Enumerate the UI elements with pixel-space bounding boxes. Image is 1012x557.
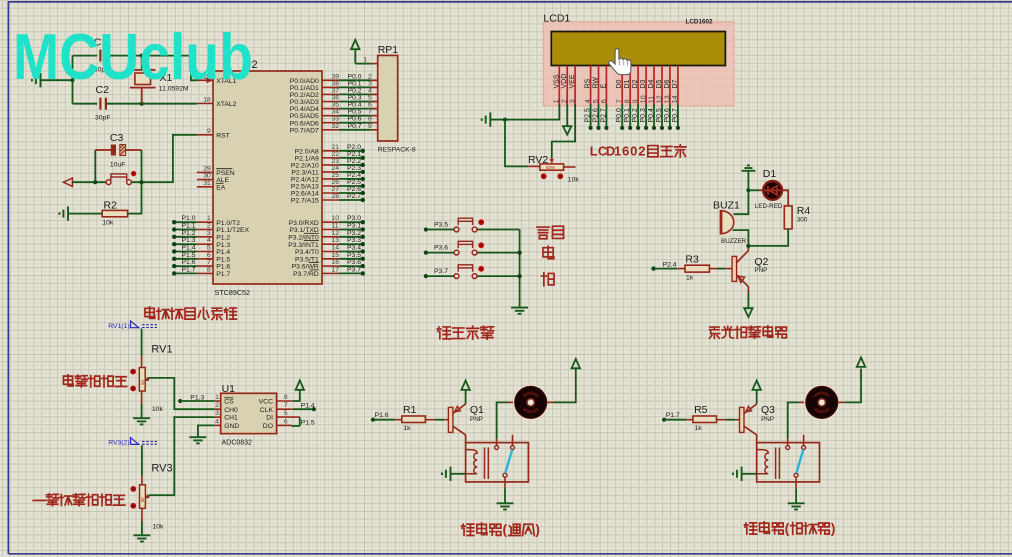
resistor pack RP1 RESPACK-8 xyxy=(363,44,416,153)
wire RV1 wiper to CH0 xyxy=(149,378,215,409)
label sheng guang bao jing dian lu xyxy=(710,327,720,338)
svg-text:P1.1: P1.1 xyxy=(182,223,196,230)
svg-text:PNP: PNP xyxy=(754,267,767,274)
svg-text:P1.5: P1.5 xyxy=(182,252,196,259)
svg-text:4: 4 xyxy=(585,99,592,103)
svg-text:300: 300 xyxy=(797,217,808,224)
wire ground down to D1 node xyxy=(747,171,749,191)
junction bus P3.7 xyxy=(518,274,522,278)
button common bus xyxy=(519,230,521,307)
svg-text:28: 28 xyxy=(332,193,340,200)
svg-text:0: 0 xyxy=(630,144,637,159)
svg-text:33: 33 xyxy=(332,116,340,123)
LED D1 LED-RED xyxy=(755,168,783,210)
svg-text:P2.6: P2.6 xyxy=(347,186,361,193)
svg-text:P0.0/AD0: P0.0/AD0 xyxy=(290,78,319,85)
P0 bus wires U2 to RP1 xyxy=(339,73,378,130)
svg-text:P3.0/RXD: P3.0/RXD xyxy=(289,220,319,227)
svg-text:3: 3 xyxy=(215,410,219,417)
svg-text:CLK: CLK xyxy=(260,407,274,414)
wire probe to RV3 xyxy=(141,445,143,476)
wire button right to RST xyxy=(132,135,197,182)
svg-text:34: 34 xyxy=(332,109,340,116)
svg-text:): ) xyxy=(535,522,540,537)
svg-text:22: 22 xyxy=(332,151,340,158)
svg-text:D0: D0 xyxy=(616,79,623,88)
svg-text:Q1: Q1 xyxy=(470,404,484,416)
svg-text:(: ( xyxy=(503,522,508,537)
svg-text:R2: R2 xyxy=(104,200,118,212)
svg-text:25: 25 xyxy=(332,172,340,179)
label jian xyxy=(542,273,555,286)
crystal X1 xyxy=(130,56,189,104)
net dot P1.6 xyxy=(371,418,375,422)
wire R1 to Q1 base xyxy=(425,419,435,421)
svg-text:23: 23 xyxy=(332,158,340,165)
svg-text:P1.0: P1.0 xyxy=(182,215,196,222)
svg-text:P1.1/T2EX: P1.1/T2EX xyxy=(216,227,249,234)
svg-text:P2.4: P2.4 xyxy=(663,261,677,268)
svg-text:P3.3/INT1: P3.3/INT1 xyxy=(288,242,319,249)
svg-text:9: 9 xyxy=(633,99,640,103)
wire relay common to ground xyxy=(504,488,506,502)
ground (RV1) xyxy=(133,418,150,424)
svg-text:13: 13 xyxy=(332,237,340,244)
svg-text:16: 16 xyxy=(332,259,340,266)
svg-text:P0.6/AD6: P0.6/AD6 xyxy=(290,120,319,127)
svg-text:MCUclub: MCUclub xyxy=(13,20,253,93)
svg-text:10k: 10k xyxy=(152,406,164,413)
net dot P2.4 xyxy=(651,266,655,270)
svg-text:10uF: 10uF xyxy=(110,161,126,168)
svg-text:5: 5 xyxy=(207,245,211,252)
svg-text:31: 31 xyxy=(203,180,211,187)
svg-text:24: 24 xyxy=(332,165,340,172)
wire motor to power xyxy=(838,401,845,403)
svg-text:P2.3/A11: P2.3/A11 xyxy=(291,170,319,177)
svg-text:P2.6: P2.6 xyxy=(593,108,600,123)
ground (top of alarm) xyxy=(741,165,755,170)
svg-text:50: 50 xyxy=(140,380,145,385)
svg-text:D1: D1 xyxy=(763,168,777,180)
svg-text:P0.3: P0.3 xyxy=(640,108,647,123)
node XTAL2 net junction xyxy=(140,102,144,106)
svg-text:2: 2 xyxy=(207,223,211,230)
wire VEE to RV2 wiper xyxy=(552,104,575,158)
svg-text:P2.1: P2.1 xyxy=(347,151,361,158)
svg-text:BUZ1: BUZ1 xyxy=(713,200,740,212)
pin arrow XTAL1 xyxy=(207,78,214,84)
svg-text:U1: U1 xyxy=(222,383,236,395)
svg-text:P1.6: P1.6 xyxy=(216,264,230,271)
wire coil ground xyxy=(742,473,757,475)
svg-text:P0.3/AD3: P0.3/AD3 xyxy=(290,99,319,106)
svg-text:EA: EA xyxy=(216,184,226,191)
svg-text:P0.1: P0.1 xyxy=(624,108,631,123)
svg-text:10k: 10k xyxy=(153,523,165,530)
svg-text:VSS: VSS xyxy=(553,74,560,88)
svg-text:DO: DO xyxy=(263,423,273,430)
push button P3.5 xyxy=(424,218,520,232)
svg-text:R5: R5 xyxy=(694,404,708,416)
P1 net wires left of U2 xyxy=(172,215,197,275)
svg-text:P0.4: P0.4 xyxy=(348,102,362,109)
svg-text:RV3(2): RV3(2) xyxy=(108,440,129,447)
svg-text:4: 4 xyxy=(215,418,219,425)
svg-text:P2.7/A15: P2.7/A15 xyxy=(291,198,319,205)
svg-text:R1: R1 xyxy=(403,404,417,416)
ground (relay coil) xyxy=(442,467,451,481)
svg-text:18: 18 xyxy=(203,97,211,104)
svg-text:PNP: PNP xyxy=(761,416,774,423)
svg-text:CH0: CH0 xyxy=(224,407,238,414)
svg-text:RST: RST xyxy=(216,132,230,139)
svg-text:1: 1 xyxy=(614,144,621,159)
ground (buttons) xyxy=(511,308,528,314)
resistor R3 (1k) xyxy=(685,254,709,282)
U2 left pins xyxy=(197,73,250,278)
svg-text:P1.7: P1.7 xyxy=(216,271,230,278)
svg-text:2: 2 xyxy=(215,402,219,409)
svg-text:GND: GND xyxy=(224,423,239,430)
svg-text:P1.4: P1.4 xyxy=(182,245,196,252)
wire P1.3 to CS xyxy=(180,400,214,402)
svg-text:STC89C52: STC89C52 xyxy=(215,288,251,297)
svg-text:XTAL2: XTAL2 xyxy=(216,101,236,108)
svg-text:8: 8 xyxy=(368,116,372,123)
svg-text:2: 2 xyxy=(638,144,645,159)
svg-text:1: 1 xyxy=(215,394,219,401)
terminal arrow down (emitter) xyxy=(744,308,752,317)
svg-text:P0.1/AD1: P0.1/AD1 xyxy=(290,85,319,92)
motor xyxy=(514,385,548,419)
svg-text:P3.6: P3.6 xyxy=(347,259,361,266)
svg-text:PSEN: PSEN xyxy=(216,170,235,177)
svg-text:P2.0/A8: P2.0/A8 xyxy=(295,148,319,155)
power terminal (motor) xyxy=(857,358,865,367)
reset button xyxy=(106,171,136,185)
svg-text:6: 6 xyxy=(207,252,211,259)
wire buzzer top pin xyxy=(733,190,748,214)
svg-text:12: 12 xyxy=(656,95,663,103)
svg-text:PNP: PNP xyxy=(470,416,483,423)
resistor R5 (1k) xyxy=(693,404,717,432)
capacitor C1 xyxy=(73,37,142,74)
svg-text:P3.7/RD: P3.7/RD xyxy=(293,271,319,278)
wire XTAL2 net to U2 xyxy=(142,103,197,105)
terminal arrow (reset left) xyxy=(64,178,73,186)
svg-text:RV1: RV1 xyxy=(151,344,172,356)
wire C3 left down to button xyxy=(94,150,96,182)
svg-text:27: 27 xyxy=(332,186,340,193)
svg-text:11: 11 xyxy=(332,223,339,230)
transistor Q2 PNP xyxy=(732,248,768,287)
svg-text:VCC: VCC xyxy=(259,399,273,406)
svg-text:D1: D1 xyxy=(624,79,631,88)
wire button junction down to R2 xyxy=(128,182,142,213)
svg-text:P3.5: P3.5 xyxy=(434,221,448,228)
svg-text:2: 2 xyxy=(368,73,372,80)
svg-text:P1.5: P1.5 xyxy=(301,420,315,427)
svg-text:4: 4 xyxy=(207,237,211,244)
wire ground junction to RV2 left xyxy=(505,120,528,167)
svg-text:P3.7: P3.7 xyxy=(434,268,448,275)
svg-text:5: 5 xyxy=(593,99,600,103)
svg-text:10k: 10k xyxy=(102,220,114,227)
svg-text:6: 6 xyxy=(368,102,372,109)
wire R3 to Q2 base xyxy=(709,268,717,270)
svg-text:11: 11 xyxy=(648,96,655,103)
svg-text:P2.4/A12: P2.4/A12 xyxy=(291,177,319,184)
svg-text:RW: RW xyxy=(593,77,600,89)
wire left vertical C1-C2 xyxy=(72,56,74,104)
mouse cursor xyxy=(609,49,631,75)
svg-text:8: 8 xyxy=(207,266,211,273)
wire node to D1 xyxy=(748,189,759,191)
ground (relay common) xyxy=(788,503,805,509)
label she zhi xyxy=(537,227,549,239)
svg-text:(: ( xyxy=(785,521,790,536)
relay (at Q1) xyxy=(466,435,529,489)
power terminal (RP1) xyxy=(351,40,359,49)
svg-text:P3.5: P3.5 xyxy=(347,252,361,259)
potentiometer RV2 (10k) xyxy=(528,154,579,183)
svg-text:10: 10 xyxy=(641,95,648,103)
svg-text:7: 7 xyxy=(368,109,372,116)
svg-text:CH1: CH1 xyxy=(224,415,238,422)
wire ground to R2 xyxy=(68,213,102,215)
svg-text:P0.7/AD7: P0.7/AD7 xyxy=(290,127,319,134)
svg-text:P2.7: P2.7 xyxy=(347,193,361,200)
svg-text:P2.5/A13: P2.5/A13 xyxy=(291,184,319,191)
svg-text:P0.0: P0.0 xyxy=(348,73,362,80)
power terminal (Q3) xyxy=(756,390,758,404)
push button P3.6 xyxy=(424,241,520,255)
junction button right xyxy=(140,180,144,184)
wire D1 to R4 xyxy=(782,190,788,206)
svg-text:P0.5/AD5: P0.5/AD5 xyxy=(290,113,319,120)
svg-text:P1.4: P1.4 xyxy=(216,249,230,256)
svg-text:1: 1 xyxy=(554,99,561,103)
wire RV3 bottom to ground xyxy=(141,508,143,521)
push button P3.7 xyxy=(424,265,520,279)
MCU U2 STC89C52 xyxy=(213,71,322,284)
power terminal (U1 VCC) xyxy=(296,380,304,389)
wire relay NO contact to motor xyxy=(497,402,508,438)
svg-text:P3.4: P3.4 xyxy=(347,245,361,252)
svg-text:P1.7: P1.7 xyxy=(182,266,196,273)
svg-text:21: 21 xyxy=(332,144,340,151)
wire RV1 bottom to ground xyxy=(141,391,143,404)
svg-text:P3.3: P3.3 xyxy=(347,237,361,244)
transistor Q3 PNP xyxy=(740,404,776,443)
svg-text:9: 9 xyxy=(368,123,372,130)
wire VCC to power xyxy=(293,390,300,401)
svg-text:P0.2: P0.2 xyxy=(632,108,639,123)
svg-text:P2.0: P2.0 xyxy=(347,144,361,151)
wire P2.4 to R3 xyxy=(654,268,678,270)
svg-text:D3: D3 xyxy=(640,79,647,88)
power terminal (Q1) xyxy=(465,390,467,404)
svg-text:LED-RED: LED-RED xyxy=(755,203,783,210)
svg-text:D7: D7 xyxy=(672,79,679,88)
svg-text:P2.5: P2.5 xyxy=(585,108,592,123)
RV2 marker dots xyxy=(541,173,547,179)
wire P1.7 to R5 xyxy=(664,419,686,421)
relay (at Q3) xyxy=(757,435,820,489)
wire DI jog to DO xyxy=(299,417,301,426)
power terminal (motor) xyxy=(572,359,580,368)
svg-text:R3: R3 xyxy=(685,254,699,266)
svg-text:P1.7: P1.7 xyxy=(666,412,680,419)
junction bus P3.6 xyxy=(518,251,522,255)
ground (left of C1/C2) xyxy=(32,73,41,87)
svg-text:P2.6/A14: P2.6/A14 xyxy=(291,191,319,198)
U2 right pins xyxy=(288,73,339,278)
svg-text:29: 29 xyxy=(203,165,211,172)
svg-text:P1.2: P1.2 xyxy=(216,234,230,241)
svg-text:Q3: Q3 xyxy=(761,404,775,416)
svg-text:ADC0832: ADC0832 xyxy=(222,440,252,447)
net dot P1.3 xyxy=(178,399,182,403)
svg-text:14: 14 xyxy=(332,245,340,252)
svg-text:14: 14 xyxy=(672,95,679,103)
svg-text:R4: R4 xyxy=(797,205,811,217)
svg-text:D4: D4 xyxy=(648,79,655,88)
net dot P1.7 xyxy=(662,418,666,422)
svg-text:36: 36 xyxy=(332,95,340,102)
svg-text:P1.0/T2: P1.0/T2 xyxy=(216,220,240,227)
svg-text:50: 50 xyxy=(140,497,145,502)
svg-text:7: 7 xyxy=(617,99,624,103)
potentiometer RV1 (10k) xyxy=(130,344,172,413)
svg-text:30: 30 xyxy=(203,173,211,180)
svg-text:P1.2: P1.2 xyxy=(182,230,196,237)
label du li an jian xyxy=(437,327,450,339)
svg-text:7: 7 xyxy=(284,402,288,409)
svg-text:CS: CS xyxy=(224,399,234,406)
motor xyxy=(805,385,839,419)
svg-text:8: 8 xyxy=(284,394,288,401)
svg-text:32: 32 xyxy=(332,123,340,130)
svg-text:P1.6: P1.6 xyxy=(375,412,389,419)
svg-text:1: 1 xyxy=(363,56,367,63)
svg-text:P0.2: P0.2 xyxy=(348,87,362,94)
label ji dian qi (tong feng) xyxy=(462,524,474,535)
buzzer BUZ1 xyxy=(713,200,747,246)
wire CLK to P1.4 xyxy=(293,408,314,410)
LCD1 LCD1602 module xyxy=(543,22,734,106)
svg-text:P0.3: P0.3 xyxy=(348,95,362,102)
junction D1/buzzer xyxy=(746,188,750,192)
svg-text:D2: D2 xyxy=(632,79,639,88)
wire R5 to Q3 base xyxy=(717,419,727,421)
svg-text:E: E xyxy=(600,84,607,89)
svg-text:): ) xyxy=(831,521,835,536)
label yi yang hua tan zhi tiao jie xyxy=(33,499,45,501)
svg-text:P2.2: P2.2 xyxy=(347,158,361,165)
transistor Q1 PNP xyxy=(448,404,484,443)
LCD pins xyxy=(553,66,679,105)
svg-text:17: 17 xyxy=(332,266,340,273)
svg-text:P3.0: P3.0 xyxy=(347,215,361,222)
resistor R4 (300) xyxy=(784,205,810,229)
svg-text:26: 26 xyxy=(332,179,340,186)
svg-text:P1.5: P1.5 xyxy=(216,256,230,263)
resistor R2 (10k) xyxy=(102,200,127,227)
svg-text:RP1: RP1 xyxy=(378,44,399,56)
svg-text:6: 6 xyxy=(622,144,629,159)
svg-text:P0.1: P0.1 xyxy=(348,80,362,87)
svg-text:DI: DI xyxy=(266,415,273,422)
ground (relay common) xyxy=(497,503,514,509)
svg-text:10: 10 xyxy=(332,215,340,222)
junction VSS/RV2 xyxy=(503,118,507,122)
svg-text:P2.4: P2.4 xyxy=(347,172,361,179)
wire buzzer bottom pin xyxy=(733,230,749,246)
svg-text:7: 7 xyxy=(207,259,211,266)
svg-text:5: 5 xyxy=(284,410,288,417)
svg-text:RV3: RV3 xyxy=(151,463,172,475)
wire Q2 emitter down xyxy=(747,287,749,293)
svg-text:P3.7: P3.7 xyxy=(347,266,361,273)
svg-text:D5: D5 xyxy=(656,79,663,88)
svg-text:35: 35 xyxy=(332,102,340,109)
wire DO to P1.5 xyxy=(292,425,300,427)
potentiometer RV3 (10k) xyxy=(130,463,172,531)
wire ground to C1/C2 junction xyxy=(41,79,73,81)
probe RV1(1) xyxy=(108,321,157,330)
node XTAL1 net junction xyxy=(140,54,144,58)
label jia xyxy=(543,246,554,259)
svg-text:3: 3 xyxy=(368,80,372,87)
ground (left of R2) xyxy=(59,206,68,220)
svg-text:3: 3 xyxy=(207,230,211,237)
svg-text:P0.6: P0.6 xyxy=(664,108,671,123)
LCD data net labels xyxy=(585,104,680,130)
svg-text:RV2: RV2 xyxy=(528,154,548,166)
ground (relay coil) xyxy=(733,467,742,481)
label dan pian ji zui xiao xi tong xyxy=(145,307,155,318)
svg-text:RV1(1): RV1(1) xyxy=(108,323,129,330)
wire XTAL1 net to U2 xyxy=(142,56,197,81)
wire GND pin xyxy=(198,425,215,436)
svg-text:P0.2/AD2: P0.2/AD2 xyxy=(290,92,319,99)
svg-text:P1.4: P1.4 xyxy=(301,403,315,410)
svg-text:P1.3: P1.3 xyxy=(182,237,196,244)
ADC U1 ADC0832 xyxy=(215,383,300,447)
svg-text:2: 2 xyxy=(562,99,569,103)
svg-text:P3.4/T0: P3.4/T0 xyxy=(295,249,319,256)
svg-text:P0.4/AD4: P0.4/AD4 xyxy=(290,106,319,113)
svg-text:LCD1602: LCD1602 xyxy=(686,18,713,25)
wire VSS to ground xyxy=(490,119,505,121)
svg-text:P0.7: P0.7 xyxy=(672,108,679,123)
svg-text:38: 38 xyxy=(332,80,340,87)
svg-text:4: 4 xyxy=(368,87,372,94)
svg-text:P0.6: P0.6 xyxy=(348,116,362,123)
svg-text:P0.5: P0.5 xyxy=(348,109,362,116)
svg-text:P2.7: P2.7 xyxy=(600,108,607,123)
P3 net wires right of U2 xyxy=(339,215,365,275)
P2 net wires right of U2 xyxy=(339,144,365,202)
svg-text:1k: 1k xyxy=(686,275,694,282)
wire probe to RV1 xyxy=(141,329,143,356)
svg-text:15: 15 xyxy=(332,252,340,259)
svg-text:P0.0: P0.0 xyxy=(616,108,623,123)
capacitor C3 (10uF) xyxy=(95,132,141,168)
capacitor C2 xyxy=(73,84,142,121)
